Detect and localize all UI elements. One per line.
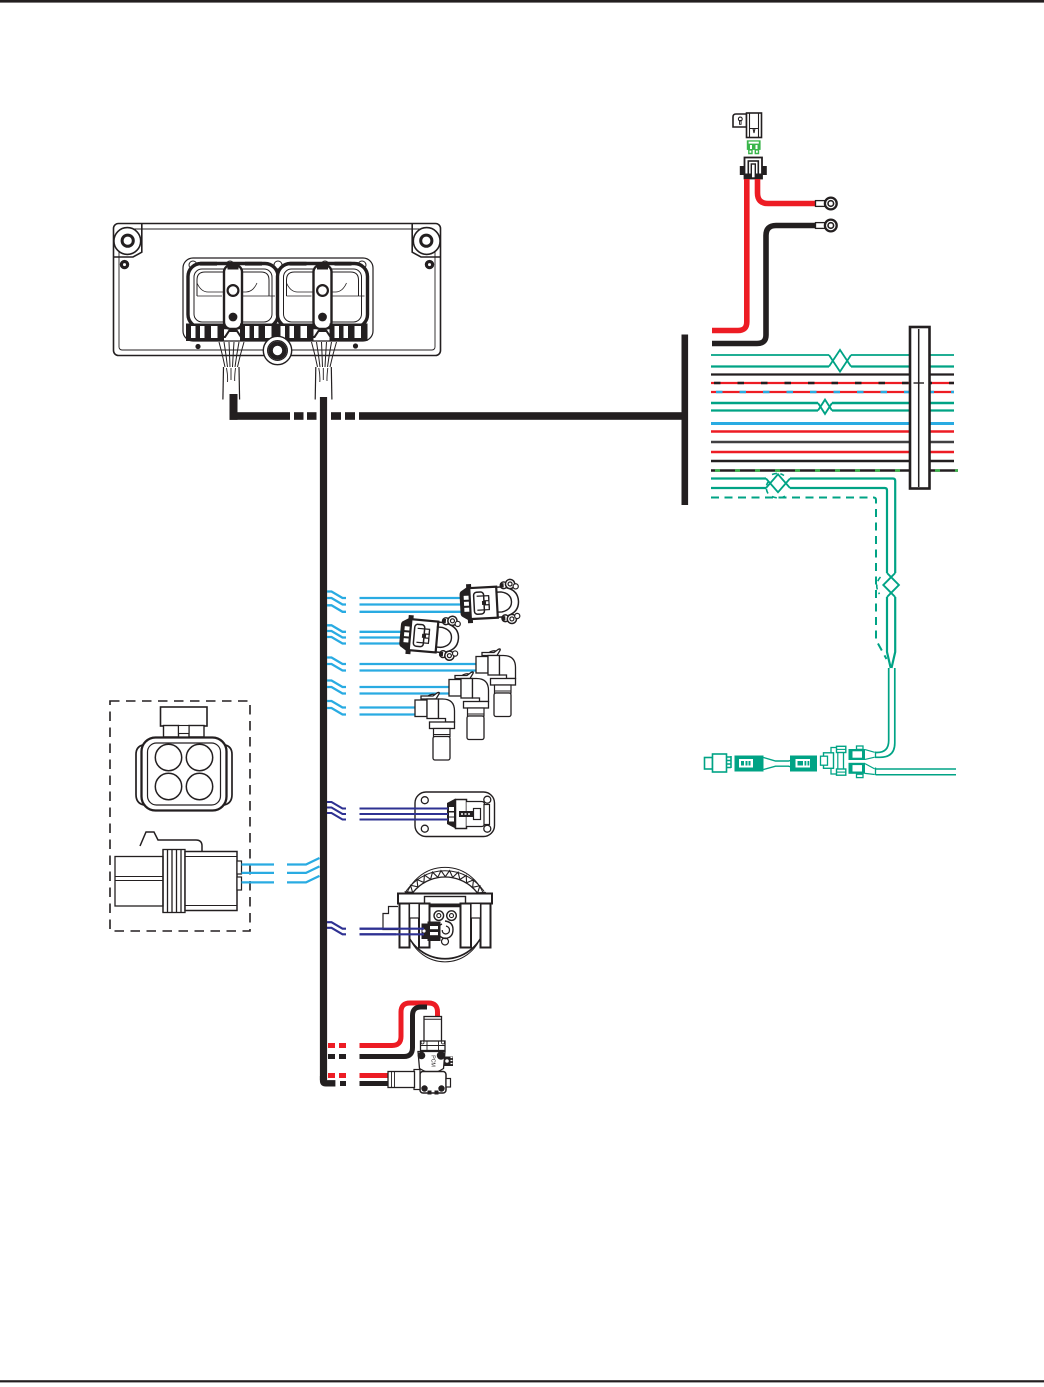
fuel pump black wire 2 xyxy=(340,1081,350,1086)
wire fan left xyxy=(219,342,225,367)
ignition coil connector 1 xyxy=(459,579,520,626)
throttle wires (navy) xyxy=(327,922,346,929)
top border rule xyxy=(0,0,1044,3)
vertical twisted pair symbol xyxy=(887,597,895,668)
harness wire 13 (black/green stripe) xyxy=(711,469,958,472)
cam sensor (elbow) 2 xyxy=(449,672,489,740)
fuel pump / PCM regulator xyxy=(424,1017,442,1042)
fuel pump red wire (loop) xyxy=(328,1043,346,1048)
injector group 2 wires (light blue) xyxy=(327,625,346,632)
harness wire 2 (teal) xyxy=(711,365,954,367)
4-pin connector (front view) xyxy=(161,707,208,726)
bottom border rule xyxy=(0,1380,1044,1382)
harness wire 6 (teal) xyxy=(711,402,954,404)
sensor group 3 wires (light blue) xyxy=(327,658,346,665)
fuel pump black wire (loop) xyxy=(328,1054,346,1059)
fuse socket xyxy=(745,158,763,179)
teal plug D xyxy=(849,749,866,760)
fuse holder xyxy=(733,114,747,127)
MAP sensor xyxy=(415,792,495,837)
MAP sensor wire runs (navy, over plate) xyxy=(360,809,449,820)
ring terminal lug 1 xyxy=(816,201,826,207)
wire sleeve left xyxy=(224,367,240,400)
sensor group 5 wires (light blue) xyxy=(327,701,346,708)
option connector wires (light blue) xyxy=(242,863,275,865)
option dashed box xyxy=(110,701,250,931)
twisted pair dashed curl xyxy=(766,481,769,494)
sensor group 4 wires (light blue) xyxy=(327,681,346,688)
throttle body / idle control xyxy=(404,877,486,959)
harness bulkhead connector xyxy=(910,327,930,489)
red wire to ring terminal xyxy=(758,179,817,204)
harness wire 9 (red) xyxy=(711,430,954,433)
svg-text:PCM: PCM xyxy=(430,1055,436,1067)
wire sleeve right xyxy=(316,367,332,400)
trunk riser left xyxy=(230,394,238,420)
harness wire 4 (red/black stripe) xyxy=(711,382,954,384)
harness wire 7 (teal) xyxy=(711,409,954,411)
trunk main drop xyxy=(320,397,327,1080)
ECM plate screws xyxy=(195,344,200,349)
harness wire 11 (red) xyxy=(711,451,954,454)
teal connector A xyxy=(705,758,713,770)
ECM connector plate xyxy=(183,258,373,341)
harness wire 1 (teal) xyxy=(711,354,954,356)
MAP sensor wires (navy) xyxy=(327,802,346,809)
ECM center grommet xyxy=(263,336,291,364)
harness wire 16 (teal dashed) xyxy=(711,498,887,660)
harness wire 15 (teal, turns down) xyxy=(711,488,887,573)
teal cable down xyxy=(875,668,889,753)
connector side view xyxy=(140,832,202,852)
fuel pump red wire 2 xyxy=(328,1073,346,1078)
ECM connector J1 xyxy=(188,264,278,328)
ECM module body xyxy=(114,224,441,356)
crank sensor (elbow) 1 xyxy=(476,649,516,717)
twisted pair symbol 3 xyxy=(766,479,790,493)
harness wire 14 (teal, turns down) xyxy=(711,479,895,574)
ECM connector J2 xyxy=(278,264,368,328)
teal T-connector C xyxy=(831,748,844,775)
ignition coil connector 2 xyxy=(398,612,461,661)
harness wire 12 (black) xyxy=(711,460,954,463)
trunk bottom foot xyxy=(320,1076,336,1087)
harness wire 3 (black) xyxy=(711,373,954,375)
teal cable right xyxy=(876,769,957,775)
throttle wire runs (navy, over body) xyxy=(360,929,425,935)
twisted pair symbol 1 xyxy=(829,355,851,372)
teal extension cable B xyxy=(735,756,764,772)
fuse F1 (green blade fuse) xyxy=(747,140,761,150)
harness bracket vertical xyxy=(682,335,689,506)
ring terminal lug 2 xyxy=(816,223,826,229)
sensor (elbow) 3 xyxy=(415,692,455,760)
harness wire 10 (gray) xyxy=(711,441,954,444)
red battery wire (fuse to harness) xyxy=(712,179,747,331)
harness wire 5 (red/blue stripe) xyxy=(711,391,954,393)
teal plug E xyxy=(849,763,866,774)
harness wire 8 (light blue) xyxy=(711,422,954,425)
trunk horizontal xyxy=(230,412,291,420)
wire fan right xyxy=(312,342,318,367)
injector group 1 wires (light blue) xyxy=(327,592,346,599)
twisted pair symbol 2 xyxy=(818,403,832,414)
black ground wire xyxy=(712,226,816,344)
